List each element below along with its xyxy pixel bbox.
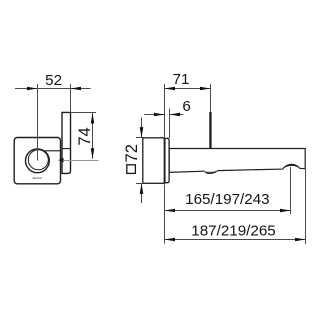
spout under-bump gray chord xyxy=(204,171,217,172)
bracket internal line xyxy=(62,148,71,150)
joystick stick xyxy=(209,112,211,149)
dim 165/197/243 right arrow xyxy=(280,209,291,213)
svg-text:KEUCO: KEUCO xyxy=(33,176,42,180)
dim 52 left extension line (to handle center) xyxy=(37,84,39,161)
in-wall body box xyxy=(143,138,165,184)
spout under-bump thick lower arc xyxy=(206,172,216,174)
dim 6 line (right tail) xyxy=(170,114,184,116)
dim 71 line xyxy=(165,88,211,90)
wall plate slab (side) xyxy=(165,138,169,182)
dim 6 right arrow xyxy=(170,113,181,117)
svg-text:187/219/265: 187/219/265 xyxy=(191,222,275,239)
dim 52 line xyxy=(15,88,91,90)
dim 6 right extension line xyxy=(169,109,171,139)
wall plate (square escutcheon front) xyxy=(14,138,60,184)
dim 74 top arrow xyxy=(91,113,95,124)
dim box72 line top segment xyxy=(141,117,143,137)
dim 165/197/243 left arrow xyxy=(165,209,176,213)
side bracket (narrow rectangle) xyxy=(62,112,71,173)
dim 74 top extension line xyxy=(71,112,96,114)
spout outlet wave (thick) xyxy=(283,164,300,169)
handle tangent line xyxy=(43,150,61,152)
svg-text:165/197/243: 165/197/243 xyxy=(185,191,269,208)
svg-text:74: 74 xyxy=(76,127,94,145)
dim box72 bottom extension xyxy=(136,183,143,185)
svg-text:71: 71 xyxy=(173,71,190,88)
center line (gray) xyxy=(63,160,99,162)
stick extension line xyxy=(210,84,212,112)
svg-text:6: 6 xyxy=(182,98,190,115)
dim 74 line xyxy=(92,113,94,159)
dim 187/219/265 left arrow xyxy=(165,238,176,242)
center pointer arrow xyxy=(58,158,63,162)
handle inner circle xyxy=(28,150,48,170)
dim 52 left arrow xyxy=(27,87,38,91)
dim 165/197/243 line xyxy=(165,210,291,212)
svg-text:72: 72 xyxy=(123,144,141,162)
dim box72 bottom arrow (points up) xyxy=(140,183,144,194)
dim 187/219/265 right extension line (spout tip) xyxy=(305,169,307,244)
dim 74 bottom arrow xyxy=(91,148,95,159)
dim 52 right arrow xyxy=(71,87,82,91)
dim 6 line (left tail) xyxy=(144,114,164,116)
dim 6 left arrow xyxy=(154,113,165,117)
dim 165/197/243 right extension line (aerator center) xyxy=(290,167,292,214)
spout body outline xyxy=(169,149,305,173)
dim box72 top arrow (points down) xyxy=(140,127,144,138)
dim box72 top extension xyxy=(136,137,143,139)
dim box72 line bottom segment xyxy=(141,184,143,204)
svg-text:52: 52 xyxy=(45,72,62,89)
handle outer circle xyxy=(26,149,50,173)
dim 52 right extension line xyxy=(70,84,72,113)
dim 187/219/265 right arrow xyxy=(295,238,306,242)
dim 187/219/265 line xyxy=(165,239,306,241)
shared left extension line (wall face, below) xyxy=(164,185,166,244)
dim 71 right arrow xyxy=(200,87,211,91)
dim 71 / 6 left extension line (wall face) xyxy=(164,84,166,138)
dim 71 left arrow xyxy=(165,87,176,91)
dim box72 square symbol xyxy=(127,165,136,174)
